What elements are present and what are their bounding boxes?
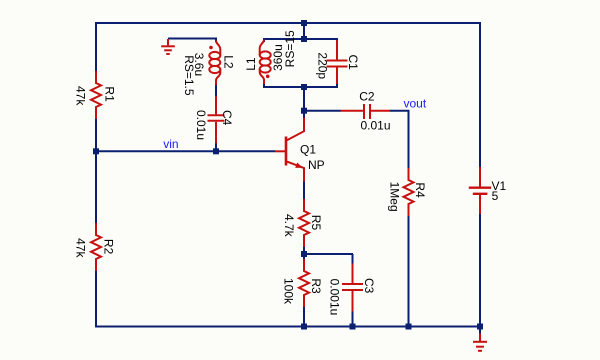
- svg-text:220p: 220p: [316, 52, 330, 79]
- svg-text:5: 5: [492, 189, 499, 203]
- svg-text:vout: vout: [404, 97, 427, 111]
- svg-text:47k: 47k: [74, 86, 88, 106]
- svg-text:C4: C4: [220, 110, 234, 126]
- svg-text:47k: 47k: [74, 238, 88, 258]
- svg-text:vin: vin: [163, 137, 178, 151]
- svg-text:0.001u: 0.001u: [328, 279, 342, 316]
- svg-text:NP: NP: [308, 158, 325, 172]
- svg-text:R3: R3: [309, 278, 323, 294]
- svg-text:1Meg: 1Meg: [388, 182, 402, 212]
- svg-text:0.01u: 0.01u: [361, 119, 391, 133]
- svg-text:4.7k: 4.7k: [282, 214, 296, 238]
- svg-text:R4: R4: [413, 182, 427, 198]
- svg-text:R5: R5: [309, 215, 323, 231]
- svg-text:RS=1.5: RS=1.5: [182, 55, 196, 96]
- svg-text:R2: R2: [102, 239, 116, 255]
- svg-text:C2: C2: [359, 89, 375, 103]
- svg-text:Q1: Q1: [300, 142, 316, 156]
- svg-text:L2: L2: [222, 55, 236, 69]
- svg-text:L1: L1: [244, 57, 258, 71]
- svg-text:0.01u: 0.01u: [194, 110, 208, 140]
- svg-text:C1: C1: [346, 55, 360, 71]
- svg-text:RS=15: RS=15: [283, 30, 297, 67]
- svg-text:C3: C3: [362, 278, 376, 294]
- svg-text:100k: 100k: [282, 278, 296, 305]
- svg-text:R1: R1: [102, 86, 116, 102]
